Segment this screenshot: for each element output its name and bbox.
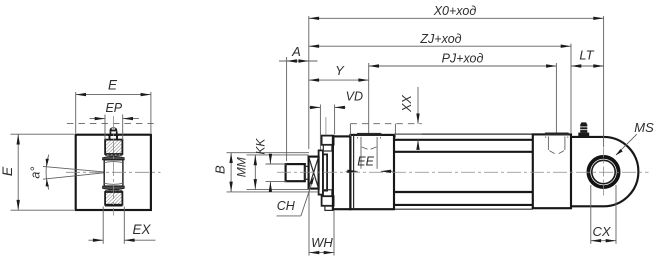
svg-text:X0+ход: X0+ход [433, 4, 477, 18]
X0 dimension line [309, 17, 604, 19]
port boss bottom hatched [105, 192, 122, 205]
PJ dimension line [369, 65, 557, 67]
cylinder tube inner bottom [394, 191, 533, 193]
port boss top hatched [105, 140, 122, 154]
EX extension line right [123, 207, 125, 244]
phantom port right side [394, 124, 396, 138]
grease nipple hex neck end view [110, 131, 112, 134]
svg-text:PJ+ход: PJ+ход [442, 52, 484, 66]
extension line eye center [603, 16, 605, 147]
front head block [350, 135, 394, 209]
EP dimension line with outside arrows [90, 118, 105, 120]
E left dimension extension bottom [11, 209, 75, 211]
phantom dashed port position line [350, 123, 421, 125]
tie rod nut bottom [322, 196, 334, 206]
tube mid section end view [104, 160, 123, 186]
rod neck [305, 166, 309, 179]
CX dimension line [591, 240, 616, 242]
gland plate inner [323, 154, 327, 190]
angle a dimension arc [46, 155, 49, 190]
EX dimension line with outside arrows [89, 239, 104, 241]
WH dimension line [309, 252, 334, 254]
svg-text:E: E [108, 78, 118, 93]
svg-text:EP: EP [105, 101, 122, 115]
extension line front port center [368, 63, 370, 133]
eye pin hole [592, 160, 615, 183]
boss thread stipple bottom [105, 190, 122, 192]
EX extension line left [102, 207, 104, 244]
front head internal line [353, 135, 355, 209]
XX leader lower arrow [417, 140, 419, 147]
vertical centerline of port fitting [112, 116, 114, 216]
WH extension lines [308, 191, 310, 256]
EE dimension with outside arrows [346, 170, 358, 172]
EP extension right [122, 115, 124, 141]
svg-text:A: A [291, 44, 301, 59]
rear eye body [571, 137, 638, 206]
extension line rear port center [555, 63, 557, 133]
E left dimension line [17, 134, 19, 210]
tie rod nut collar bottom [325, 206, 333, 211]
rear port flange plate [546, 133, 569, 135]
cylinder tube outer top [394, 139, 533, 141]
tie rod washer top [323, 145, 332, 151]
svg-text:ZJ+ход: ZJ+ход [419, 32, 461, 46]
grease nipple base nut bar [108, 134, 119, 136]
KK dimension outside arrows [269, 155, 271, 164]
eye vertical centerline [603, 148, 605, 197]
rear port bore pocket [547, 136, 549, 150]
MM dimension line [254, 155, 256, 190]
rear head block [533, 134, 571, 208]
tie rod silhouette top [394, 133, 533, 135]
A dimension line [279, 60, 318, 62]
tie rod washer bottom [323, 190, 332, 196]
angle a arc arrow bottom [46, 179, 49, 187]
cylinder tube inner top [394, 151, 533, 153]
MM extension lines [247, 154, 309, 156]
E top dimension extension left [75, 92, 77, 133]
svg-text:E: E [0, 166, 15, 176]
svg-text:WH: WH [311, 235, 333, 250]
KK extension lines [266, 163, 287, 165]
boss bottom seat dark line [105, 205, 122, 207]
E top dimension line [76, 94, 151, 96]
angle a arc arrow top [46, 159, 49, 167]
VD dimension line with outside arrows [310, 106, 321, 108]
eye boss ring [588, 157, 618, 187]
svg-text:EE: EE [357, 155, 374, 169]
phantom top line right [394, 133, 422, 135]
angle a wedge line upper [43, 166, 104, 172]
cylinder tube outer bottom [394, 204, 533, 206]
extension line block face VD [334, 105, 336, 135]
LT dimension line [571, 65, 604, 67]
main centerline [277, 171, 649, 173]
tie rod silhouette bottom [394, 208, 533, 210]
gland plate outer [319, 150, 323, 194]
piston rod stub [286, 164, 305, 181]
boss thread stipple top [105, 154, 122, 156]
svg-text:LT: LT [579, 48, 594, 63]
extension line rod clevis face [308, 16, 310, 149]
B dimension line [230, 153, 232, 192]
B extension lines [227, 152, 310, 154]
square end plate [76, 135, 151, 210]
extension line rod tip [286, 57, 288, 161]
svg-text:XX: XX [400, 95, 414, 113]
front flange plate [333, 136, 351, 209]
extension line gland face VD [319, 105, 321, 150]
tie rod nut top [322, 136, 334, 145]
extension line rear block right [570, 44, 572, 134]
svg-text:KK: KK [254, 138, 268, 155]
horizontal centerline of end view [66, 171, 161, 173]
angle a wedge line lower [43, 173, 104, 179]
front port bore pocket [360, 137, 362, 169]
collar band top [103, 156, 125, 159]
CX extension lines [590, 185, 592, 244]
extension line nut edge [325, 117, 327, 135]
svg-text:CH: CH [277, 199, 296, 213]
nipple thread legs [109, 136, 111, 140]
svg-text:Y: Y [335, 63, 345, 78]
svg-text:MM: MM [234, 157, 248, 177]
E top dimension extension right [150, 92, 152, 133]
front port flange plate [358, 134, 381, 136]
XX leader upper arrow [417, 87, 419, 124]
phantom dashed line rotated port plane [67, 122, 154, 124]
E left dimension extension top [11, 133, 75, 135]
grease nipple rear [578, 133, 589, 137]
collar band bottom [103, 186, 125, 190]
EP extension left [104, 115, 106, 141]
svg-text:EX: EX [132, 222, 151, 237]
grease nipple dome end view [110, 127, 118, 131]
svg-text:a°: a° [29, 167, 43, 179]
svg-text:CX: CX [592, 224, 611, 239]
Y dimension line [309, 79, 369, 81]
ZJ dimension line [309, 45, 571, 47]
phantom port left side [349, 124, 351, 137]
rod end cross box [309, 157, 319, 189]
svg-text:B: B [212, 165, 227, 174]
svg-text:VD: VD [346, 90, 363, 104]
svg-text:MS: MS [634, 120, 654, 135]
